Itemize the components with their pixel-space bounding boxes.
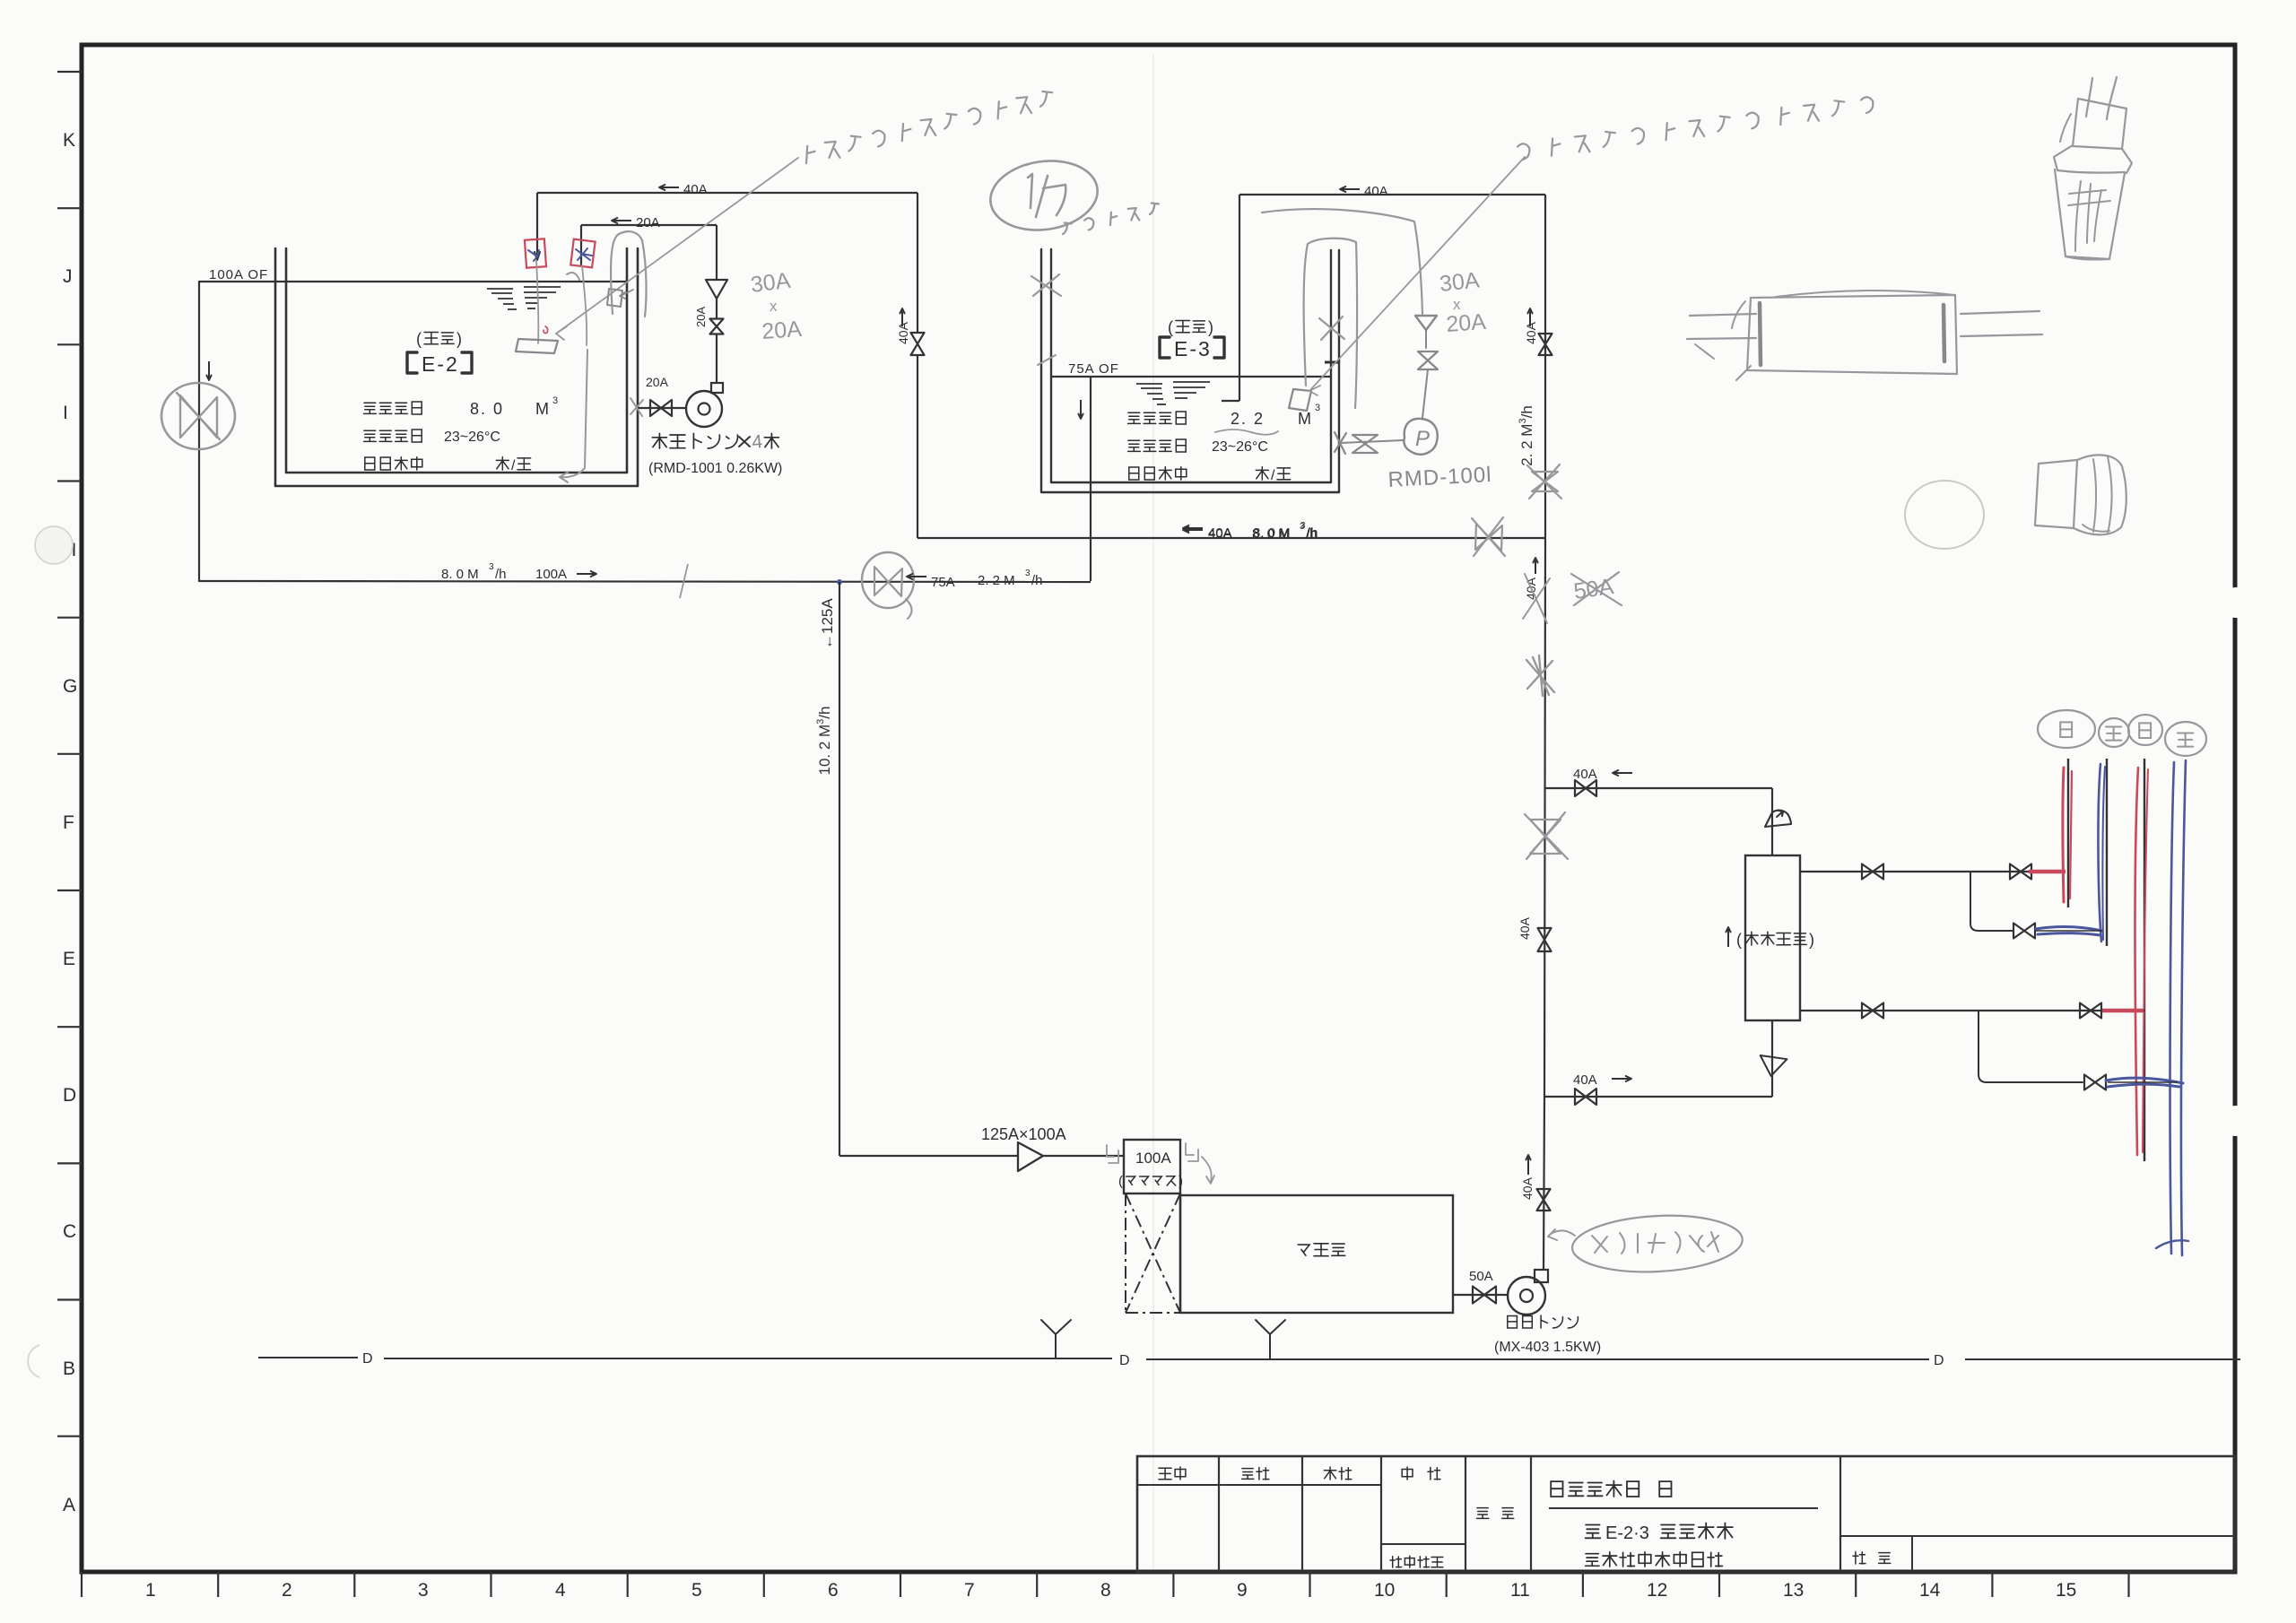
valve at hot bus <box>2010 864 2031 880</box>
svg-text:/: / <box>511 458 516 473</box>
label 40A up arrow <box>901 308 903 326</box>
pipe 40A return E-3 <box>1239 194 1545 195</box>
pencil note oval ben-ireru <box>1548 1229 1575 1240</box>
svg-text:(: ( <box>416 330 422 348</box>
svg-text:14: 14 <box>1919 1580 1941 1601</box>
valve 40A hx bottom <box>1575 1089 1596 1105</box>
red mark at hot bus <box>2029 870 2066 874</box>
pencil X on standpipe <box>1319 317 1344 340</box>
right frame binder notch lower <box>2221 1106 2251 1136</box>
pipe to reducer <box>839 1155 1018 1157</box>
svg-text:40A: 40A <box>1520 1176 1535 1200</box>
pipe hx top to hot bus <box>1800 871 2063 872</box>
valve 20A horizontal at pump <box>650 400 672 416</box>
label 2.2M3h rotated riser <box>1518 405 1535 466</box>
svg-text:3: 3 <box>418 1580 429 1601</box>
svg-text:40A: 40A <box>1573 767 1597 782</box>
water surface symbol E-3 <box>1136 382 1210 404</box>
bus line 2 black <box>2106 759 2108 946</box>
pencil tick on line <box>680 564 688 598</box>
pipe 40A to heat exchanger top <box>1545 787 1772 789</box>
pipe 100A collector line <box>199 581 1091 582</box>
skimmer box 100A <box>1124 1140 1180 1193</box>
label 40A with arrow <box>659 187 679 188</box>
svg-text:←125A: ←125A <box>819 598 836 649</box>
svg-text:7: 7 <box>964 1580 975 1601</box>
svg-text:3: 3 <box>1025 568 1031 578</box>
title underline <box>1549 1507 1818 1509</box>
svg-text:/h: /h <box>1031 573 1043 588</box>
blue mark at cold bus upper <box>2036 927 2102 935</box>
valve 40A hx top <box>1575 780 1596 796</box>
svg-text:M: M <box>535 400 549 418</box>
pencil 1/7 circle <box>986 154 1101 237</box>
svg-text:12: 12 <box>1647 1580 1667 1601</box>
pipe 40A drop into tank <box>536 193 538 258</box>
title labels shonin kenzu seizu <box>1159 1468 1171 1479</box>
label 40A 8.0M3h <box>1183 527 1203 529</box>
label 75A 2.2M3h <box>907 576 926 577</box>
thin line under blue cold upper <box>2035 930 2102 932</box>
svg-text:2. 2: 2. 2 <box>1231 410 1265 428</box>
pipe 125A drop <box>839 582 840 1156</box>
pencil circled valve 75A <box>862 552 914 608</box>
pencil loop inner E-3 <box>1304 239 1357 408</box>
pencil scribble ogawa <box>1063 223 1072 235</box>
title project name <box>1586 1525 1601 1539</box>
bus line 3 red marks <box>2135 768 2139 1155</box>
pump kiryu RMD-1001 <box>711 383 723 393</box>
svg-text:C: C <box>63 1221 76 1242</box>
table row suiso-suion 23-26C <box>364 430 377 441</box>
pipe hx bottom to riser <box>1544 1096 1772 1098</box>
pencil crossed valve on line <box>1475 524 1502 551</box>
pencil valve on funnel leg <box>1418 352 1438 369</box>
svg-text:): ) <box>457 330 462 348</box>
svg-text:5: 5 <box>691 1580 702 1601</box>
skimmer column dash-dot <box>1125 1193 1126 1313</box>
left binder hole lower <box>28 1345 39 1377</box>
label netsukokanki <box>1727 927 1729 947</box>
svg-text:2. 2 M3/h: 2. 2 M3/h <box>1518 405 1535 466</box>
hook pipe to bus 4 lower <box>1979 1011 2083 1082</box>
drain line D segment 2 <box>384 1358 1112 1359</box>
svg-text:40A: 40A <box>683 182 708 197</box>
thin line under blue cold lower <box>2108 1081 2178 1083</box>
left margin ticks <box>57 72 82 1436</box>
valve 40A riser mid <box>1538 928 1552 951</box>
scan fold line <box>1152 54 1154 1573</box>
pipe 40A return line E-2 <box>537 192 918 194</box>
bus line 4 blue pair <box>2170 762 2174 1254</box>
drain funnel Y 1 <box>1041 1320 1071 1358</box>
svg-text:6: 6 <box>828 1580 839 1601</box>
svg-text:): ) <box>1809 931 1814 949</box>
pipe hx bottom drop <box>1771 1020 1773 1097</box>
svg-text:30A: 30A <box>1439 267 1481 297</box>
tank E-2 walls <box>275 248 638 486</box>
label kiryu pump x4 <box>652 433 666 448</box>
svg-text:40A: 40A <box>1208 525 1232 541</box>
table row suiso-suiryo 8.0 M3 <box>364 403 377 413</box>
svg-text:M: M <box>1298 410 1311 428</box>
water line E-3 <box>1051 376 1331 378</box>
svg-text:8. 0: 8. 0 <box>470 400 504 418</box>
svg-text:20A: 20A <box>646 375 669 389</box>
pencil fitting scribble left of skimmer <box>1107 1145 1118 1163</box>
svg-text:B: B <box>63 1358 75 1379</box>
svg-text:100A: 100A <box>535 567 567 582</box>
water surface symbol E-2 <box>487 287 561 309</box>
svg-text:A: A <box>63 1495 75 1515</box>
svg-text:/h: /h <box>495 567 507 582</box>
svg-text:(RMD-1001 0.26KW): (RMD-1001 0.26KW) <box>648 461 782 476</box>
tank E-2 overflow pipe 100A OF <box>198 282 200 581</box>
valve on hx bottom pipe <box>1862 1003 1883 1019</box>
left binder hole <box>35 526 73 564</box>
valve 50A <box>1473 1287 1496 1304</box>
svg-text:100A OF: 100A OF <box>209 267 268 282</box>
pencil cup near wall E-2 <box>607 289 622 307</box>
pencil underline 2.2 <box>1215 430 1278 435</box>
table E-3 row 3 <box>1129 467 1139 480</box>
svg-text:F: F <box>63 812 74 833</box>
pencil vertical in E-2 tank with arrow <box>560 350 587 482</box>
bus line 3 black <box>2144 759 2145 1161</box>
pencil sketch strainer cone <box>2086 77 2117 119</box>
pencil funnel 30Ax20A <box>1415 316 1437 330</box>
overflow pipe 75A drop <box>1090 377 1091 581</box>
svg-text:20A: 20A <box>636 215 660 230</box>
label junkan pump <box>1508 1316 1518 1329</box>
valve at bus 3 <box>2080 1003 2101 1019</box>
svg-text:15: 15 <box>2056 1580 2076 1601</box>
pencil X and valve on suction <box>1335 432 1346 454</box>
drain funnel Y 2 <box>1256 1320 1285 1359</box>
pencil note strainer E-3 <box>1518 143 1529 160</box>
svg-text:): ) <box>1208 318 1213 336</box>
svg-text:K: K <box>63 130 75 151</box>
svg-text:D: D <box>1934 1353 1944 1368</box>
svg-text:20A: 20A <box>694 307 708 327</box>
pipe 20A line E-2 <box>581 224 717 226</box>
label E-2 designation <box>407 352 417 373</box>
svg-text:G: G <box>63 676 77 697</box>
drain funnel below hx <box>1758 1055 1787 1078</box>
svg-text:3: 3 <box>1315 403 1320 413</box>
valve 40A riser top <box>1539 334 1552 355</box>
svg-text:D: D <box>63 1085 76 1106</box>
svg-text:3: 3 <box>552 395 558 406</box>
pencil faint circle <box>1905 481 1984 549</box>
svg-text:(: ( <box>1736 931 1742 949</box>
pencil leader to E-2 strainer <box>556 158 798 340</box>
pipe hx bottom to bus 3 <box>1800 1010 2144 1011</box>
pencil X on E-3 left wall <box>1031 274 1061 296</box>
label 10.2 M3h rotated <box>815 706 833 775</box>
svg-text:2. 2 M: 2. 2 M <box>978 573 1015 588</box>
svg-text:10. 2 M3/h: 10. 2 M3/h <box>815 706 833 775</box>
bus line 1 black <box>2067 759 2069 907</box>
bus line 2 blue marks <box>2098 764 2101 942</box>
svg-text:4: 4 <box>751 431 763 453</box>
column numbers 1 to 15 <box>145 1580 2076 1601</box>
overflow down arrow <box>208 361 210 380</box>
svg-text:20A: 20A <box>1445 309 1487 337</box>
overflow notch mark <box>1325 361 1339 364</box>
circulation pump MX-403 <box>1535 1270 1548 1282</box>
svg-text:75A: 75A <box>931 575 955 590</box>
valve on hx top pipe <box>1862 864 1883 880</box>
svg-text:P: P <box>1415 427 1430 451</box>
bus line 1 red marks <box>2063 768 2064 902</box>
svg-text:8. 0 M: 8. 0 M <box>1253 525 1291 541</box>
bottom margin ticks <box>82 1572 2129 1597</box>
pencil sketch inline strainer <box>1687 314 1756 339</box>
svg-text:E-2: E-2 <box>422 352 459 376</box>
pipe 40A to riser 8.0M3h <box>918 537 1545 539</box>
svg-text:E-3: E-3 <box>1174 337 1212 360</box>
pencil valve circle on OF drain <box>161 383 235 449</box>
svg-text:40A: 40A <box>1573 1072 1597 1088</box>
svg-text:D: D <box>1119 1353 1130 1368</box>
label 20A with arrow <box>612 220 631 221</box>
pencil P pump circle <box>1404 419 1437 455</box>
pencil suction line to P <box>1340 440 1403 443</box>
svg-text:1: 1 <box>145 1580 156 1601</box>
svg-text:30A: 30A <box>749 268 792 298</box>
reducer 125x100 <box>1018 1142 1043 1171</box>
riser bottom valve 40A <box>1537 1189 1551 1211</box>
svg-text:I: I <box>63 403 68 423</box>
pencil strainer pot E-3 <box>1289 389 1311 411</box>
svg-text:125A×100A: 125A×100A <box>981 1125 1066 1143</box>
svg-text:40A: 40A <box>1518 916 1532 940</box>
foot valve funnel <box>706 280 727 299</box>
blue mark at bus 4 lower <box>2106 1078 2183 1087</box>
svg-text:3: 3 <box>489 562 494 572</box>
heat exchanger body <box>1745 855 1800 1020</box>
svg-text:/h: /h <box>1307 525 1318 541</box>
svg-text:4: 4 <box>555 1580 566 1601</box>
table E-3 row 1 <box>1128 412 1141 423</box>
pencil hook over E-2 wall <box>611 231 647 317</box>
pencil scribble right of skimmer <box>1186 1143 1198 1161</box>
pipe to circulation pump <box>716 334 717 384</box>
pump suction line 20A <box>638 407 686 409</box>
blue tick in box 1 <box>528 250 539 261</box>
pencil circles labels hot cold <box>2038 710 2095 748</box>
valve at cold bus upper <box>2013 924 2035 939</box>
pencil loop outer E-3 <box>1262 209 1422 314</box>
junction dot blue <box>837 579 842 585</box>
svg-text:J: J <box>63 266 73 287</box>
table row junkan-kaisu <box>365 457 375 470</box>
svg-text:(MX-403 1.5KW): (MX-403 1.5KW) <box>1494 1340 1601 1355</box>
title block outline <box>1137 1456 2235 1572</box>
row letters K to A <box>63 130 77 1515</box>
svg-text:2: 2 <box>282 1580 292 1601</box>
svg-text:(: ( <box>1168 318 1173 336</box>
pencil tick on E-3 left wall low <box>1038 355 1056 365</box>
valve 20A vertical <box>710 319 724 334</box>
pencil scribble blob on riser <box>1526 655 1554 696</box>
pipe 40A drop into E-3 <box>1239 195 1240 401</box>
red mark at bus 3 <box>2102 1009 2144 1013</box>
label 40A arrow E-3 <box>1340 188 1360 190</box>
svg-text:40A: 40A <box>1364 184 1388 199</box>
label E-3 designation <box>1160 337 1170 358</box>
title block dividers <box>1137 1456 2235 1572</box>
svg-text:50A: 50A <box>1469 1269 1493 1284</box>
title drawing name <box>1586 1554 1599 1567</box>
pencil note strainer E-2 <box>806 146 815 163</box>
svg-text:3: 3 <box>1300 521 1306 531</box>
title client Toba aquarium <box>1551 1481 1562 1497</box>
pencil leader to E-3 strainer <box>1309 157 1525 395</box>
pencil line from box1 to pot <box>536 260 538 343</box>
label 40A 8.0M3h under E-3 <box>1183 529 1203 531</box>
pencil line into tank from box <box>582 265 587 345</box>
svg-text:8. 0 M: 8. 0 M <box>441 567 479 582</box>
vent symbol <box>1765 811 1791 827</box>
drain line D segment 4 <box>1965 1358 2240 1360</box>
pipe 20A drop to foot valve <box>716 225 717 280</box>
svg-text:x: x <box>770 298 778 315</box>
pencil crossed valve on riser upper <box>1532 472 1558 491</box>
pipe 50A to pump <box>1453 1294 1508 1296</box>
blue cross in box 2 <box>576 248 592 260</box>
svg-text:E: E <box>63 949 75 969</box>
svg-text:100A: 100A <box>1135 1150 1171 1167</box>
pencil sketch small fitting <box>2035 460 2077 528</box>
svg-text:9: 9 <box>1237 1580 1248 1601</box>
svg-text:(: ( <box>1118 1174 1123 1189</box>
drain line D segment 1 <box>258 1357 358 1358</box>
svg-text:40A: 40A <box>1524 321 1538 344</box>
svg-text:40A: 40A <box>896 321 910 344</box>
svg-text:23~26°C: 23~26°C <box>1212 439 1268 455</box>
svg-text:75A OF: 75A OF <box>1068 361 1119 377</box>
right frame binder notch upper <box>2221 587 2251 618</box>
svg-text:11: 11 <box>1510 1580 1530 1601</box>
valve at bus 4 lower <box>2084 1075 2106 1090</box>
svg-text:): ) <box>1178 1174 1183 1189</box>
svg-text:13: 13 <box>1783 1580 1804 1601</box>
pencil crossed valve on riser mid <box>1530 820 1561 854</box>
down arrow E-3 <box>1080 400 1082 419</box>
svg-text:23~26°C: 23~26°C <box>444 430 500 445</box>
svg-text:20A: 20A <box>761 317 803 344</box>
svg-text:D: D <box>362 1351 373 1367</box>
drain line D segment 3 <box>1146 1358 1929 1360</box>
pipe down to hx <box>1771 788 1773 855</box>
red mark box 2 <box>570 239 595 268</box>
pipe 20A drop <box>580 225 582 265</box>
red mark box 1 <box>525 239 546 267</box>
svg-text:/: / <box>1271 468 1275 483</box>
tank E-3 walls <box>1041 249 1339 492</box>
red curl at pot <box>544 326 548 334</box>
main riser 40A <box>1544 195 1546 538</box>
table E-3 row 2 <box>1128 440 1141 451</box>
pencil pot E-2 <box>516 339 558 353</box>
valve 40A on E-2 branch <box>917 193 918 333</box>
svg-text:10: 10 <box>1374 1580 1395 1601</box>
hook pipe to cold bus upper <box>1970 872 2013 931</box>
pencil cross on suction <box>631 398 643 416</box>
svg-text:8: 8 <box>1100 1580 1111 1601</box>
svg-text:E-2·3: E-2·3 <box>1605 1523 1649 1543</box>
filter tank rokaso <box>1180 1195 1453 1313</box>
